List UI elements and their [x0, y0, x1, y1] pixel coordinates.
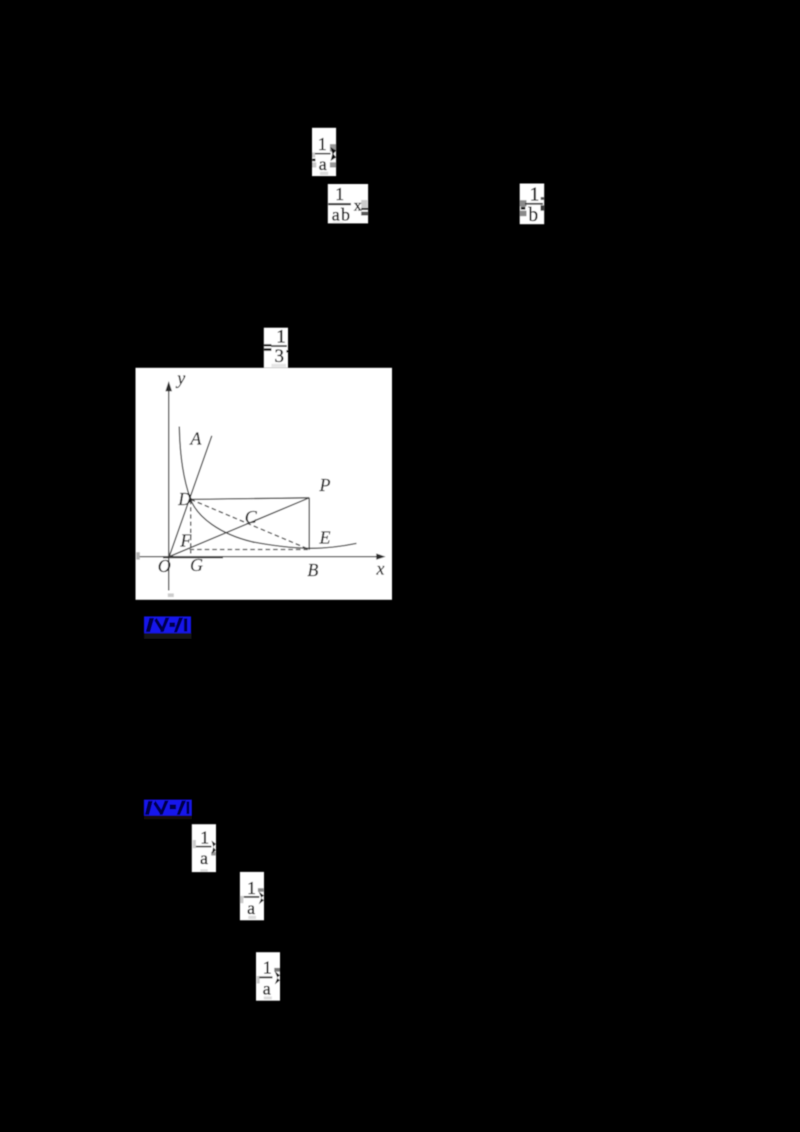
svg-text:G: G: [190, 555, 203, 575]
fraction image 1/a (second): [192, 824, 216, 872]
svg-text:1: 1: [335, 184, 344, 204]
rectangle top edge DP: [191, 498, 310, 500]
svg-text:ab: ab: [332, 205, 351, 225]
svg-text:1: 1: [200, 827, 209, 847]
x-axis arrowhead: [376, 554, 385, 560]
equals sign overlapping left edge: [264, 344, 272, 346]
hyperbola curve: [179, 427, 356, 549]
svg-text:O: O: [158, 556, 171, 576]
svg-text:1: 1: [276, 326, 286, 347]
svg-text:E: E: [319, 528, 331, 548]
dashed vertical D to G: [190, 500, 192, 554]
svg-text:C: C: [245, 507, 258, 527]
svg-text:1: 1: [247, 878, 256, 898]
svg-text:1: 1: [318, 134, 327, 154]
line OP: [169, 498, 309, 557]
svg-text:a: a: [200, 848, 208, 868]
dashed horizontal F to B: [190, 549, 309, 551]
x-axis: [137, 556, 382, 558]
svg-text:y: y: [175, 368, 185, 388]
svg-text:a: a: [247, 898, 255, 918]
svg-text:F: F: [179, 530, 192, 550]
svg-text:x: x: [354, 197, 362, 214]
blue answer tag 1: [144, 616, 192, 638]
thick x-axis segment near origin: [163, 556, 223, 558]
svg-text:A: A: [189, 429, 202, 449]
svg-text:x: x: [376, 559, 385, 579]
dashed diagonal D to B: [191, 499, 309, 549]
svg-text:3: 3: [275, 346, 285, 367]
fraction image 1/b: [520, 184, 545, 227]
fraction image 1/3: [264, 326, 289, 367]
rectangle right edge P down: [308, 498, 310, 550]
graph figure white background: [136, 368, 393, 600]
blue answer tag 2: [144, 800, 192, 820]
svg-text:1: 1: [263, 958, 272, 978]
fraction image 1/a (fourth): [256, 952, 280, 1001]
fraction image 1/a (top): [312, 128, 336, 176]
svg-text:a: a: [319, 154, 327, 174]
fraction image 1/a (third): [240, 872, 264, 920]
y-axis arrowhead: [165, 381, 172, 391]
line OA through D: [169, 436, 212, 557]
point dot at D: [189, 498, 192, 501]
svg-text:1: 1: [530, 184, 540, 205]
y-axis: [168, 389, 170, 591]
small gray tick left edge of axis: [136, 552, 140, 559]
svg-text:b: b: [528, 205, 538, 226]
gray mark at bottom of y-axis: [168, 593, 174, 597]
svg-text:a: a: [263, 979, 271, 999]
svg-text:P: P: [319, 475, 331, 495]
svg-text:B: B: [307, 560, 318, 580]
svg-text:D: D: [177, 489, 191, 509]
fraction image 1/(ab) x: [328, 184, 368, 225]
